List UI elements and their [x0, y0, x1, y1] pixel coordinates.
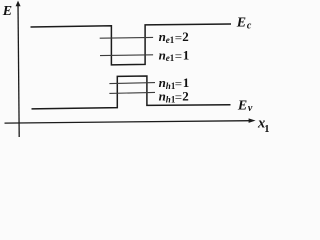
arrowhead of E axis: [16, 1, 21, 7]
arrowhead of x1 axis: [249, 118, 256, 123]
level n_h1=2 line: [109, 92, 155, 93]
level n_e1=1 line: [100, 54, 153, 57]
svg-text:ne1=1: ne1=1: [159, 47, 190, 63]
level n_h1=1 line: [109, 83, 155, 84]
conduction band edge (well): [31, 24, 232, 65]
axis E (vertical): [18, 4, 19, 138]
svg-text:E: E: [2, 4, 12, 19]
valence band edge (barrier bump): [32, 76, 231, 109]
axis x1 (horizontal): [5, 121, 252, 123]
level n_e1=2 line: [100, 36, 153, 39]
